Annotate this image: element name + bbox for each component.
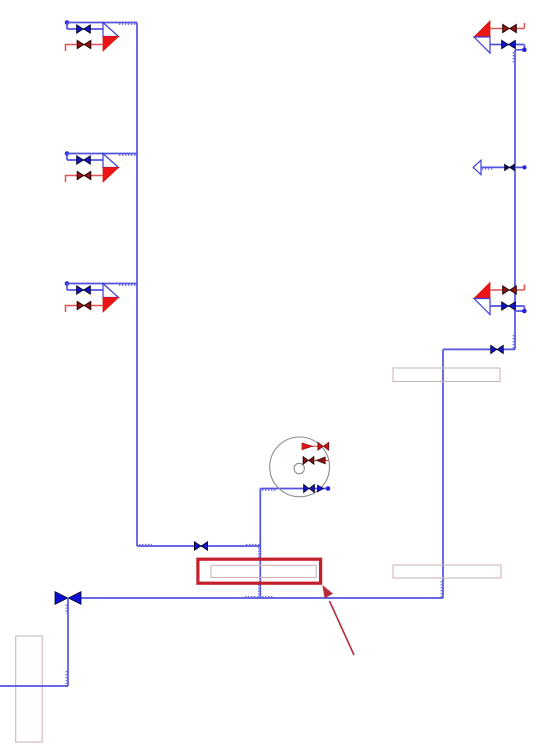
consumer 1R red upper half	[474, 21, 490, 37]
valve pump blue row	[304, 485, 315, 493]
valve red consumer 2L	[77, 171, 91, 179]
wire mid main	[137, 545, 260, 547]
valve pump row2	[303, 457, 314, 464]
valve mini R	[505, 164, 515, 170]
wire right trunk	[514, 50, 516, 349]
wire pump branch	[260, 488, 328, 490]
consumer 2R lower half	[474, 299, 490, 315]
wire mini R	[481, 166, 525, 168]
wire center riser dotted pair 2	[258, 585, 260, 598]
wire red return consumer 1R	[490, 23, 524, 29]
wire right corner horizontal	[443, 348, 515, 350]
wire bottom main dotted left of junction	[245, 596, 259, 598]
wire right downcomer	[442, 349, 444, 598]
wire right downcomer dotted pair	[440, 581, 442, 597]
valve red consumer 1L	[77, 40, 91, 48]
wire mid main dotted pair left	[139, 544, 152, 546]
wire consumer 2L inlet	[67, 154, 103, 161]
node pump end	[326, 486, 331, 491]
wire node link 2R	[515, 306, 524, 311]
valve pump row1	[318, 443, 329, 450]
valve red consumer 1R	[503, 24, 517, 32]
pump circle	[270, 437, 330, 497]
consumer 2L lower half	[103, 168, 119, 183]
node N2L	[65, 151, 70, 156]
wire pump red row2	[303, 459, 329, 461]
annotation arrow head	[322, 585, 333, 598]
consumer 2L upper half	[103, 154, 119, 168]
consumer 3L lower half	[103, 298, 119, 313]
consumer 2R red upper half	[474, 283, 490, 299]
wire center riser dotted pair 1	[258, 548, 260, 558]
wire consumer 3L to trunk	[67, 283, 137, 285]
valve blue consumer 2L	[77, 156, 91, 164]
wire mid main dotted pair right	[246, 544, 260, 546]
pump hub	[294, 463, 304, 473]
wire consumer 1L to trunk	[67, 22, 137, 24]
consumer 1L upper half	[103, 23, 119, 37]
wire consumer 2L to trunk	[67, 153, 137, 155]
wire red return consumer 2R	[490, 285, 524, 291]
wire center riser	[259, 489, 261, 599]
valve blue consumer 1R	[502, 40, 516, 48]
wire pump branch dotted pair	[262, 489, 277, 491]
valve main bottom left	[55, 592, 81, 605]
wire below valve dotted pair 2	[65, 671, 67, 684]
valve red consumer 2R	[503, 286, 517, 294]
flow arrow red row2	[317, 457, 326, 464]
wire consumer 1L inlet	[67, 23, 103, 30]
consumer 1R lower half	[474, 37, 490, 53]
wire consumer 3L inlet	[67, 284, 103, 291]
node N1L	[65, 20, 70, 25]
wire blue inlet consumer 2R	[490, 305, 524, 307]
wire pump red row1	[302, 445, 329, 447]
wire left supply trunk	[136, 23, 138, 547]
valve blue consumer 2R	[502, 302, 516, 310]
wire right trunk dotted top	[512, 52, 514, 63]
wire node link 1R	[515, 45, 524, 50]
wire red return consumer 1L	[66, 45, 104, 52]
label box right lower	[393, 565, 501, 578]
wire consumer 1L dotted pair	[119, 23, 137, 25]
wire blue inlet consumer 1R	[490, 44, 524, 46]
wire red return consumer 2L	[66, 176, 104, 183]
annotation arrow line	[330, 601, 355, 655]
label box bottom left tall	[16, 636, 43, 742]
flow arrow red row1	[302, 443, 313, 450]
consumer 3L upper half	[103, 284, 119, 298]
valve mid main	[195, 542, 208, 550]
label box right upper	[393, 368, 500, 382]
wire below main valve	[0, 598, 68, 686]
node N3L	[65, 281, 70, 286]
consumer 1L lower half	[103, 37, 119, 52]
wire bottom main	[76, 597, 443, 599]
wire consumer 2L dotted pair	[119, 154, 137, 156]
node N1R	[522, 48, 527, 53]
wire bottom main dotted right of junction	[262, 596, 273, 598]
flow arrow blue	[318, 485, 324, 492]
label box center	[211, 565, 316, 577]
node N mini R	[522, 165, 526, 169]
valve red consumer 3L	[77, 301, 91, 309]
node N2R	[522, 309, 527, 314]
consumer mini R outline	[473, 160, 481, 174]
wire below valve dotted pair 1	[65, 605, 67, 615]
wire right trunk dotted bottom	[512, 335, 514, 349]
valve blue consumer 3L	[77, 286, 91, 294]
wire red return consumer 3L	[66, 306, 104, 313]
highlight box red	[198, 559, 321, 583]
wire consumer 3L dotted pair	[119, 284, 137, 286]
wire mini R dotted pair	[482, 168, 494, 170]
valve blue consumer 1L	[77, 25, 91, 33]
valve right corner	[491, 345, 503, 353]
